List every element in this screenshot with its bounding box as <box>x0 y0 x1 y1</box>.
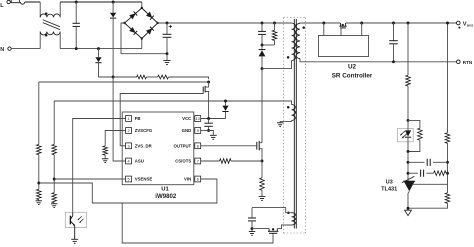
resistor R4 sense a <box>113 76 137 78</box>
ground chain A <box>38 200 40 201</box>
pin 1 box <box>126 116 132 122</box>
node startup drain <box>207 81 210 84</box>
wire chain B mid <box>53 155 55 193</box>
fuse F1 <box>11 0 19 3</box>
node GND pin <box>207 129 210 132</box>
node aux-diode tap <box>224 100 227 103</box>
opto transistor arrow a <box>78 216 82 219</box>
node X-cap bottom <box>75 47 78 50</box>
svg-text:VCC: VCC <box>182 116 191 121</box>
node U2 pin right <box>360 22 363 25</box>
resistor R10 zvscfg <box>103 146 108 155</box>
bridge diode bottom-right <box>146 28 152 34</box>
resistor R7 <box>37 189 42 199</box>
wire ZVS gate run <box>122 203 273 243</box>
svg-text:5: 5 <box>127 178 129 182</box>
transformer secondary winding <box>296 23 300 58</box>
node diode L tap <box>112 1 115 4</box>
pin 7 box <box>195 158 201 164</box>
transistor Q2 source stub <box>205 92 209 119</box>
ground primary DC- <box>166 54 168 61</box>
ground zvs cap <box>251 229 253 232</box>
IC U1 body <box>122 112 194 185</box>
svg-text:ASU: ASU <box>135 159 144 164</box>
svg-text:VIN: VIN <box>184 177 191 182</box>
transistor Q1 drain stub <box>259 142 262 144</box>
transistor Q2 gate bar <box>202 87 204 92</box>
wire drain divider top <box>39 81 209 83</box>
transformer zvs winding <box>292 213 296 225</box>
pin 4 box <box>126 158 132 164</box>
diode D1 (L line sense) <box>112 2 114 13</box>
resistor R15 divider lower <box>445 193 450 204</box>
zvs winding polarity dot <box>287 211 290 214</box>
node line sense junction <box>112 76 115 79</box>
svg-text:U1: U1 <box>161 187 169 193</box>
transistor Q2 channel <box>204 86 206 93</box>
node chain B tap (VSENSE) <box>53 178 56 181</box>
terminal N <box>8 47 11 50</box>
resistor R9 <box>52 193 57 203</box>
pin 8 box <box>195 143 201 149</box>
svg-text:BUS: BUS <box>467 24 474 28</box>
wire ZVS_DR to Q2 gate <box>120 92 203 146</box>
wire DC+ rail <box>158 22 292 24</box>
wire Q3 gate to U2 <box>340 28 342 36</box>
node diode N tap <box>97 47 100 50</box>
node VCC <box>207 117 210 120</box>
node bulk cap bottom <box>166 52 169 55</box>
wire secondary out <box>300 22 340 24</box>
resistor R8 <box>52 144 57 154</box>
secondary polarity dot <box>302 26 305 29</box>
choke core lines <box>43 20 60 27</box>
wire OUTPUT to gate <box>201 145 257 147</box>
wire TL431 cathode <box>407 152 409 182</box>
svg-text:ZVSCFG: ZVSCFG <box>135 128 153 133</box>
wire RTN <box>300 59 457 62</box>
bridge diode top-left <box>129 13 136 19</box>
wire aux top <box>54 101 291 105</box>
node bridge right <box>157 22 159 24</box>
choke winding bottom <box>39 32 41 49</box>
node snubber cap top <box>261 22 264 25</box>
capacitor C6 comp <box>408 172 418 174</box>
node ref b <box>446 172 449 175</box>
optocoupler U4 LED box <box>398 128 414 141</box>
resistor R6 <box>37 144 42 154</box>
node bridge top <box>141 7 143 9</box>
wire zvs winding top <box>252 208 292 213</box>
transistor Q1 gate bar <box>256 142 258 150</box>
svg-text:RTN: RTN <box>463 60 473 65</box>
node primary return <box>261 67 264 70</box>
wire bridge minus to ground <box>121 23 167 54</box>
capacitor C7 zvs <box>251 208 253 218</box>
node comp b <box>407 172 410 175</box>
wire zvs winding bottom <box>277 225 291 229</box>
wire drain bus <box>261 69 263 143</box>
transformer isolation dashed box <box>284 18 306 234</box>
wire chain B top <box>53 101 55 144</box>
wire U2 pin b <box>361 23 363 36</box>
svg-text:6: 6 <box>197 178 199 182</box>
wire GND pin <box>201 130 209 132</box>
wire rail to bridge AC top <box>141 2 143 8</box>
resistor R13 divider upper <box>445 133 450 144</box>
svg-text:N: N <box>0 47 4 53</box>
wire TL431 anode <box>408 191 409 208</box>
node comp a <box>407 161 410 164</box>
wire top rail <box>60 1 142 3</box>
resistor R1 snubber <box>274 23 276 30</box>
fusible link arc <box>20 2 24 4</box>
optocoupler U4 transistor box <box>65 212 86 227</box>
wire zvs node <box>252 228 269 230</box>
pin 5 box <box>126 176 132 182</box>
wire VCC pin <box>201 118 226 120</box>
capacitor C5 comp <box>408 161 425 163</box>
svg-text:GND: GND <box>182 128 192 133</box>
node TL431 anode <box>407 207 410 210</box>
ground aux winding <box>277 122 283 124</box>
shunt U3 TL431 <box>403 180 415 182</box>
capacitor C2 snubber <box>261 23 263 31</box>
terminal VBUS <box>457 21 461 25</box>
opto transistor arrow b <box>80 219 84 222</box>
wire divider <box>447 23 449 133</box>
opto LED arrow a <box>401 131 405 135</box>
svg-text:U2: U2 <box>348 63 357 70</box>
svg-text:10: 10 <box>196 117 200 121</box>
IC U2 body <box>319 36 369 57</box>
choke polarity dot top <box>45 12 48 15</box>
svg-text:FB: FB <box>135 116 141 121</box>
svg-text:VSENSE: VSENSE <box>135 177 153 182</box>
optocoupler LED <box>407 120 409 130</box>
node opto top <box>407 119 410 122</box>
node zvs cap bottom <box>251 227 254 230</box>
resistor R3 current sense <box>261 161 263 178</box>
capacitor C4 output <box>393 23 395 41</box>
node opto bottom <box>407 150 410 153</box>
capacitor C3 VCC <box>208 119 210 124</box>
wire FB line <box>73 119 123 213</box>
diode D3 snubber <box>261 45 263 50</box>
wire snubber RC join <box>262 44 275 46</box>
transformer primary winding <box>292 23 296 61</box>
svg-text:iW9802: iW9802 <box>155 193 177 200</box>
pin 3 box <box>126 143 132 149</box>
pin 2 box <box>126 128 132 134</box>
capacitor CX1 <box>75 2 77 23</box>
capacitor C1 bulk <box>166 23 168 34</box>
ground opto emitter <box>71 238 78 240</box>
resistor R2 gate/CS <box>201 160 220 162</box>
wire chain A top <box>38 82 40 144</box>
wire ASU line <box>113 77 122 161</box>
wire aux bottom <box>280 121 291 123</box>
svg-text:4: 4 <box>127 160 129 164</box>
wire fuse to choke <box>25 1 41 3</box>
node divider top <box>407 22 410 25</box>
pin 10 box <box>195 116 201 122</box>
node snubber R top <box>273 22 276 25</box>
node bridge left <box>123 22 125 24</box>
svg-text:OUTPUT: OUTPUT <box>174 144 192 149</box>
label dot <box>458 27 460 29</box>
wire U2 pin a <box>323 23 325 36</box>
transistor Q2 drain stub <box>205 82 209 87</box>
svg-text:SR Controller: SR Controller <box>332 73 373 80</box>
ground secondary <box>405 210 412 215</box>
node output cap bottom <box>392 60 395 63</box>
choke winding top <box>39 2 41 17</box>
node bulk cap top <box>166 22 169 25</box>
wire TL431 ref <box>412 183 447 185</box>
opto LED arrow b <box>402 134 406 138</box>
wire chain A mid <box>38 155 40 190</box>
transformer aux winding <box>292 105 296 121</box>
terminal RTN <box>457 60 461 64</box>
bridge diode top-right <box>146 12 152 18</box>
diode D2 (N line sense) <box>98 49 100 58</box>
wire bottom rail <box>60 48 142 50</box>
bridge diode bottom-left <box>129 27 136 33</box>
opto transistor <box>69 216 71 225</box>
svg-text:3: 3 <box>127 144 129 148</box>
node bridge bottom <box>141 37 143 39</box>
node chain A tap <box>37 182 40 185</box>
svg-text:U3: U3 <box>386 179 393 185</box>
resistor R14 comp <box>434 171 446 176</box>
wire VIN sense loop <box>39 179 217 203</box>
aux polarity dot <box>287 106 290 109</box>
transistor Q1 channel <box>258 141 260 151</box>
svg-text:7: 7 <box>197 160 199 164</box>
wire VBUS <box>346 22 457 24</box>
ground current sense <box>259 195 266 197</box>
ground chain B <box>53 203 55 204</box>
transformer T1 core <box>293 19 295 229</box>
ground zvscfg <box>104 155 106 159</box>
node output cap top <box>392 22 395 25</box>
wire ZVSCFG <box>105 131 122 146</box>
transistor Q4 ZVS <box>268 229 270 232</box>
pin 9 box <box>195 128 201 134</box>
node U2 pin left <box>322 22 325 25</box>
svg-text:CS/OTS: CS/OTS <box>175 159 191 164</box>
transistor Q1 source stub <box>259 149 262 161</box>
transistor Q3 SR FET <box>339 23 341 26</box>
node snubber RC <box>261 44 264 47</box>
wire VSENSE <box>54 178 122 180</box>
svg-text:9: 9 <box>197 129 199 133</box>
resistor R5 sense b <box>146 76 157 78</box>
resistor R12 parallel opto <box>408 120 420 128</box>
choke polarity dot bottom <box>45 34 48 37</box>
svg-text:2: 2 <box>127 129 129 133</box>
wire rail to bridge AC bottom <box>141 39 143 49</box>
wire N to choke <box>11 48 40 50</box>
terminal L <box>7 0 10 3</box>
node divider vbus <box>446 22 449 25</box>
resistor R11 opto bias <box>407 23 409 75</box>
plus sign bulk cap <box>169 26 172 28</box>
wire primary bottom <box>262 61 292 69</box>
diode D4 VCC <box>225 112 227 119</box>
node X-cap top <box>75 1 78 4</box>
svg-text:ZVS_DR: ZVS_DR <box>135 144 153 149</box>
node CS <box>261 160 264 163</box>
bridge rectifier BR1 frame <box>125 8 158 39</box>
svg-text:1: 1 <box>127 117 129 121</box>
svg-text:8: 8 <box>197 144 199 148</box>
pin 6 box <box>195 176 201 182</box>
primary polarity dot <box>287 56 290 59</box>
ground VCC <box>209 131 214 136</box>
node ref a <box>446 161 449 164</box>
svg-text:TL431: TL431 <box>381 186 397 192</box>
